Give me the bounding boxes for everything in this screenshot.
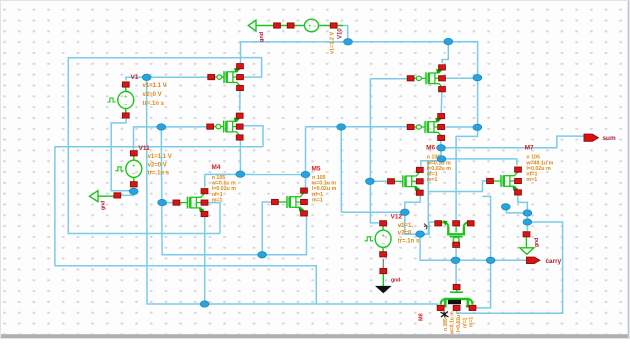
wire M4 drain stub bbox=[204, 174, 206, 187]
svg-text:sum: sum bbox=[603, 135, 616, 142]
svg-text:−: − bbox=[132, 171, 136, 177]
wire V11 minus stub bbox=[133, 188, 135, 192]
ground V12 (black) bbox=[380, 269, 387, 274]
wire M5 drain stub bbox=[305, 175, 307, 188]
node V1-V11-gnd bbox=[129, 188, 138, 194]
node M3 bulk bbox=[473, 124, 482, 130]
wire pmos4 gate drop bbox=[455, 247, 457, 260]
svg-text:−: − bbox=[124, 103, 128, 109]
output port sum bbox=[584, 134, 598, 141]
voltage source V12 bbox=[365, 221, 392, 257]
node node B bbox=[400, 209, 409, 215]
wire VDD rail left + PMOS M1 drain drop bbox=[241, 42, 348, 64]
wire M7 source down bbox=[518, 195, 528, 231]
wire M4 gate stub bbox=[162, 202, 173, 204]
wire V12 gate column bbox=[370, 79, 378, 223]
transistor M7 bbox=[487, 167, 522, 195]
pin V10 t1 bbox=[274, 23, 281, 28]
wire y147 long line bbox=[55, 147, 316, 304]
svg-text:tr=.1n s: tr=.1n s bbox=[398, 238, 420, 244]
wire V11 plus stub bbox=[134, 127, 162, 151]
svg-text:v2=0 V: v2=0 V bbox=[148, 162, 167, 168]
wire M4 bulk tie bbox=[208, 203, 220, 234]
svg-text:gnd: gnd bbox=[391, 278, 400, 284]
node M2 bulk bbox=[473, 75, 482, 81]
node M4 source low bbox=[200, 301, 209, 307]
node carry a bbox=[523, 210, 532, 216]
wire sum rail bbox=[441, 136, 584, 148]
wire M7 gate feed bbox=[428, 181, 486, 192]
wire x305 drop bbox=[305, 127, 307, 175]
svg-text:gnd: gnd bbox=[259, 32, 265, 42]
svg-text:m=1: m=1 bbox=[427, 177, 438, 183]
ground symbol top (gnd of V10) bbox=[248, 20, 256, 31]
wire M5 gate riser bbox=[262, 202, 271, 255]
node drain rail b bbox=[301, 171, 310, 177]
wire V11 net vertical bbox=[161, 127, 262, 255]
window border bottom bbox=[0, 334, 630, 339]
pin V10 t3 bbox=[330, 23, 337, 28]
pin M9 top terminal bbox=[453, 284, 460, 289]
svg-text:gnd: gnd bbox=[534, 238, 540, 247]
node M6 gate node bbox=[366, 178, 375, 184]
svg-text:V1: V1 bbox=[131, 74, 139, 81]
wire V1 plus elbow bbox=[126, 77, 147, 80]
wire PMOS M1a-M1b link bbox=[239, 89, 241, 112]
node VDD-V10 bbox=[344, 39, 353, 45]
node V11 out bbox=[157, 124, 166, 130]
wire PMOS M3 bulk stub bbox=[445, 126, 478, 128]
pin gnd-left terminal bbox=[114, 193, 121, 198]
wire PMOS M2 gate feed bbox=[370, 78, 406, 80]
wire M6 source elbow bbox=[405, 195, 420, 212]
svg-text:v2=0 V: v2=0 V bbox=[143, 92, 162, 98]
svg-text:m=1: m=1 bbox=[212, 197, 223, 203]
pin V10 t2 bbox=[287, 23, 294, 28]
wire M6 gate stub bbox=[370, 180, 388, 182]
node drain rail a bbox=[236, 171, 245, 177]
transistor M8 (horizontal PMOS) bbox=[435, 220, 474, 247]
wire PMOS M1a gate feed bbox=[147, 76, 208, 78]
wire VDD rail bbox=[348, 42, 478, 222]
node gate-right T bbox=[337, 124, 346, 130]
svg-text:v1=1.2 V: v1=1.2 V bbox=[330, 31, 336, 54]
wire PMOS M1b bulk loop bbox=[243, 126, 263, 147]
svg-text:+: + bbox=[381, 233, 385, 239]
svg-text:V10: V10 bbox=[338, 28, 344, 39]
dark mark near V12 bbox=[424, 224, 427, 230]
transistor M4 bbox=[173, 189, 208, 217]
wire pmos4 source jog bbox=[420, 222, 429, 234]
wire PMOS M3 drain to M6 drain node bbox=[421, 138, 441, 167]
wire PMOS M1b gate feed bbox=[161, 126, 206, 128]
node mid node bbox=[501, 204, 510, 210]
ground carry (open) bbox=[523, 232, 530, 237]
svg-text:+: + bbox=[132, 163, 136, 169]
wire VDD rail top bbox=[343, 26, 348, 42]
svg-text:tr=.1n s: tr=.1n s bbox=[143, 101, 165, 107]
svg-text:V11: V11 bbox=[139, 145, 151, 152]
wire M4 source stub bbox=[204, 217, 206, 304]
wire branch to PMOS M2 drain bbox=[442, 42, 448, 63]
wire gate net to M9 bbox=[455, 260, 457, 285]
svg-text:−: − bbox=[381, 241, 385, 247]
wire V1 net vertical bbox=[147, 77, 438, 308]
node VDD-M2drain bbox=[444, 38, 453, 44]
svg-text:+: + bbox=[124, 95, 128, 101]
node V1 out bbox=[142, 74, 151, 80]
transistor M2 bbox=[407, 65, 445, 92]
wire V1 minus elbow bbox=[111, 119, 134, 191]
wire gate line right bbox=[306, 126, 408, 128]
svg-text:n 105: n 105 bbox=[443, 318, 449, 331]
svg-text:−: − bbox=[313, 24, 317, 30]
voltage source V11 bbox=[115, 151, 142, 187]
svg-text:l=0.02u: l=0.02u bbox=[456, 315, 462, 332]
svg-text:M8: M8 bbox=[419, 313, 425, 321]
wire M5 source riser bbox=[262, 217, 306, 255]
wire carry line bbox=[455, 259, 526, 261]
wire node B horizontal bbox=[341, 211, 404, 213]
transistor M1b bbox=[207, 113, 243, 140]
transistor M5 bbox=[272, 188, 308, 216]
svg-text:carry: carry bbox=[546, 258, 562, 265]
svg-text:v1=1.1 V: v1=1.1 V bbox=[148, 154, 172, 160]
wire PMOS M1a bulk loop bbox=[241, 58, 262, 78]
svg-text:M5: M5 bbox=[312, 166, 321, 173]
svg-text:gnd: gnd bbox=[101, 201, 107, 210]
node carry cross bbox=[486, 257, 495, 263]
svg-text:V12: V12 bbox=[391, 214, 403, 221]
svg-text:v2=0: v2=0 bbox=[398, 230, 412, 236]
window border right bbox=[628, 0, 630, 339]
svg-text:v1=1.1 V: v1=1.1 V bbox=[143, 83, 167, 89]
voltage source V1 bbox=[107, 82, 134, 118]
wire y232 line bbox=[68, 58, 240, 234]
wire x341 vertical bbox=[340, 127, 342, 212]
node carry b bbox=[523, 219, 532, 225]
wire v12 node to carry bbox=[420, 234, 455, 260]
wire net x428 vertical bbox=[420, 161, 428, 234]
svg-text:m=1: m=1 bbox=[312, 197, 323, 203]
svg-text:v1=1,: v1=1, bbox=[398, 223, 414, 229]
svg-text:w=0.1u m: w=0.1u m bbox=[450, 311, 456, 335]
svg-text:m=1: m=1 bbox=[526, 177, 537, 183]
wire M4-M5 drain rail bbox=[205, 173, 306, 175]
svg-text:M7: M7 bbox=[525, 145, 534, 152]
node sum node bbox=[437, 145, 446, 151]
svg-text:tr=.1n s: tr=.1n s bbox=[148, 171, 170, 177]
wire PMOS M2 bulk stub bbox=[445, 77, 477, 79]
wire M7 gate to carry drop bbox=[476, 196, 491, 308]
transistor M6 bbox=[388, 167, 424, 195]
dark scribble bbox=[441, 312, 449, 318]
svg-text:M6: M6 bbox=[426, 145, 435, 152]
wire carry to gnd-right loop bbox=[457, 222, 563, 313]
wire node jog at 506 bbox=[506, 207, 528, 213]
voltage source V10 bbox=[305, 19, 319, 32]
wire gnd-left stub bbox=[121, 191, 134, 195]
ground left (gnd) bbox=[90, 191, 99, 202]
wire dot1 to dot2 jog bbox=[405, 212, 420, 234]
svg-text:M4: M4 bbox=[212, 164, 221, 171]
wire M7 drain link bbox=[442, 159, 519, 165]
output port carry bbox=[527, 257, 540, 264]
node carry gate bbox=[451, 257, 460, 263]
wire PMOS M1b source drop bbox=[239, 140, 241, 174]
node M4 gate bbox=[158, 199, 167, 205]
wire x428 T to pmos4 source bbox=[428, 221, 435, 223]
node V11 low bbox=[258, 252, 267, 258]
transistor M1a bbox=[208, 64, 244, 91]
node M7 drain node bbox=[437, 156, 446, 162]
transistor M3 bbox=[407, 114, 444, 141]
svg-text:+: + bbox=[308, 24, 312, 30]
transistor M9 (horizontal NMOS) bbox=[437, 287, 476, 311]
node V12 node bbox=[416, 231, 425, 237]
svg-text:m=1: m=1 bbox=[469, 317, 475, 327]
wire PMOS M2-M3 link bbox=[440, 90, 443, 114]
